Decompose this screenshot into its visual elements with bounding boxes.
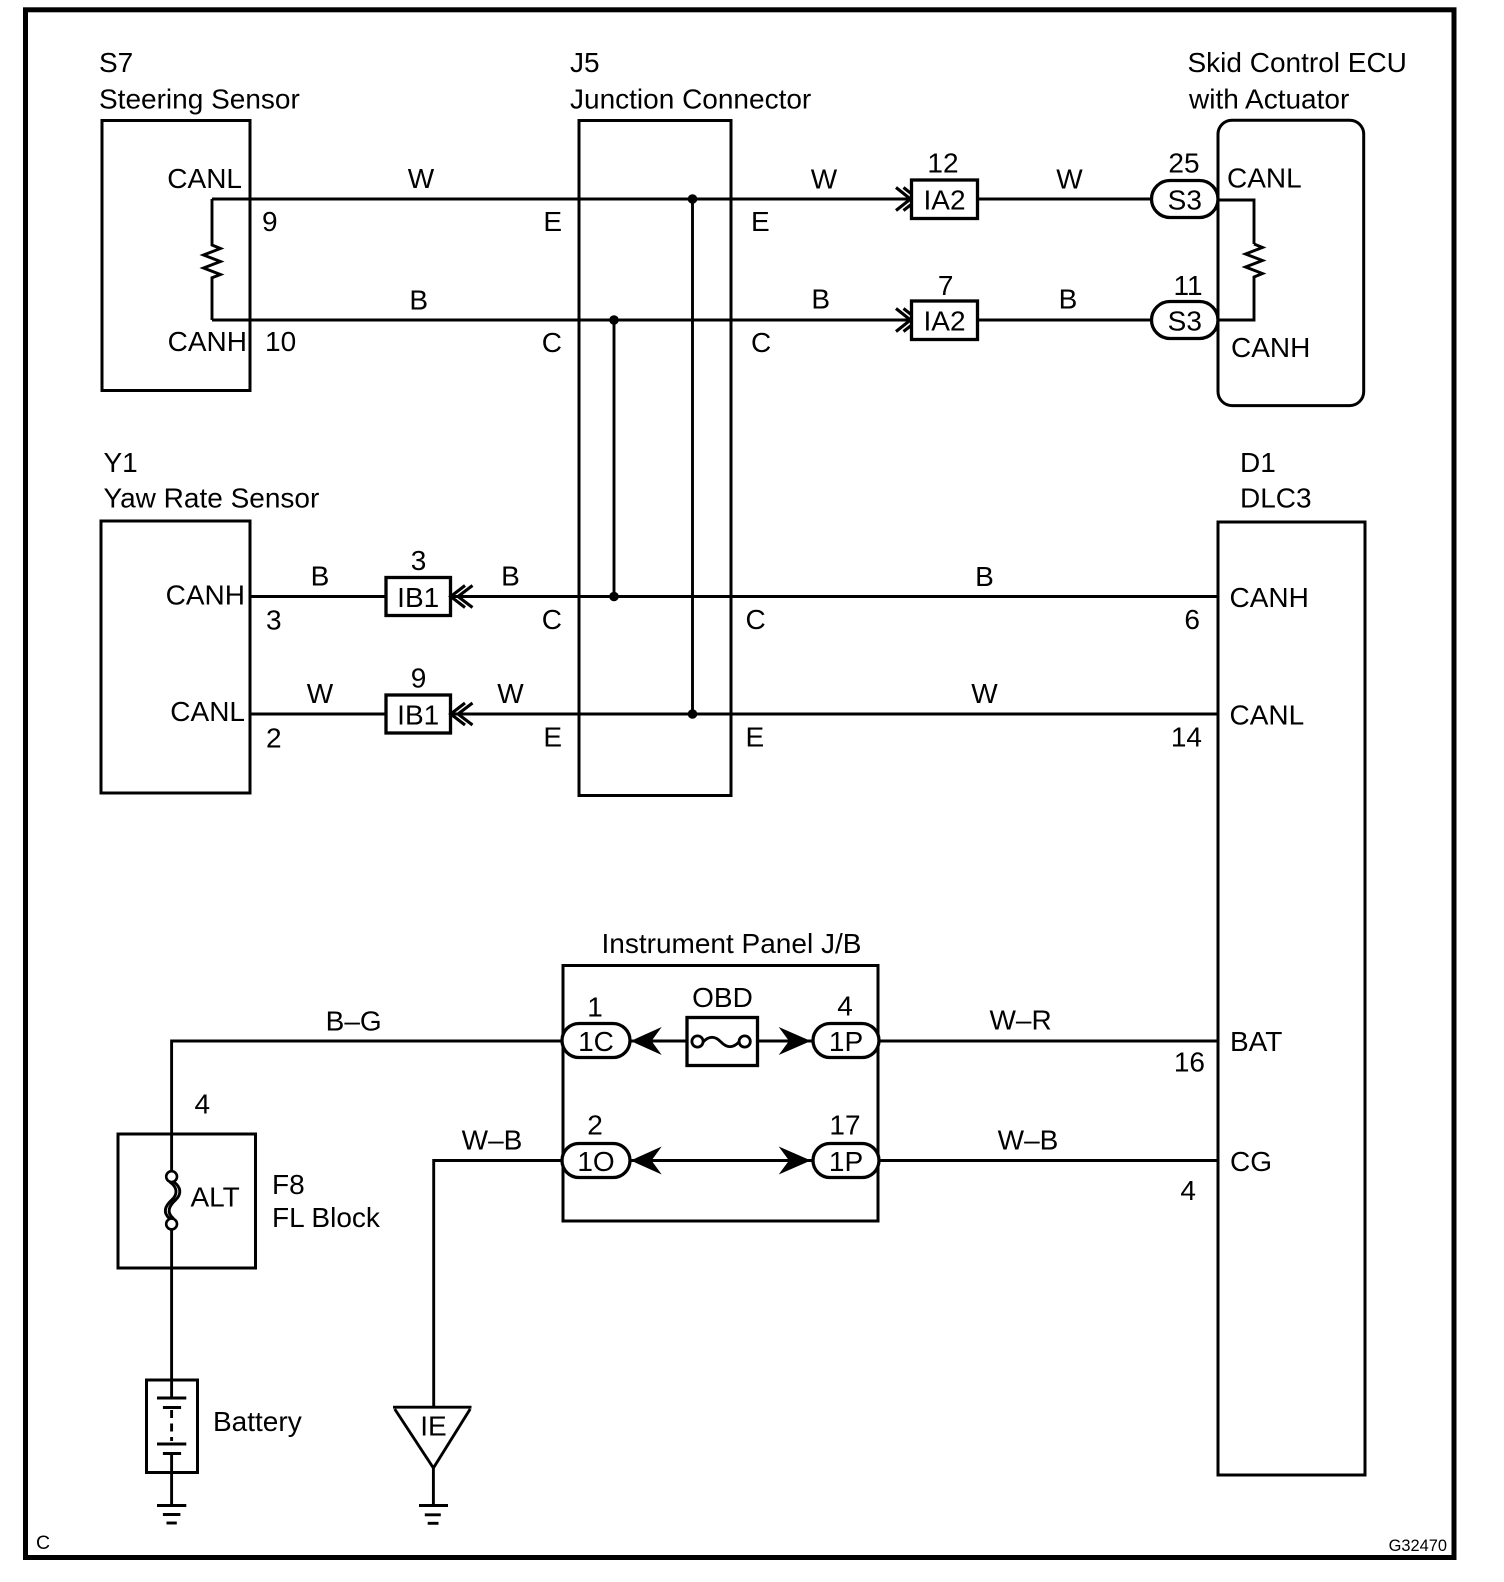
wire: B (CANH) yaw rate sensor to DLC3, row 3: [250, 595, 1218, 598]
svg-text:C: C: [751, 327, 771, 358]
connector 1P pin 17 of J/B: [813, 1110, 879, 1178]
connector 1C pin 1 of J/B: [562, 992, 630, 1058]
svg-text:4: 4: [195, 1089, 211, 1120]
svg-text:C: C: [36, 1532, 50, 1554]
wire: W (CANL) yaw rate sensor to DLC3, row 4: [250, 713, 1218, 716]
svg-text:B: B: [501, 561, 520, 592]
wire: B-G battery feed from fusible link to J/B 1C: [172, 1041, 563, 1134]
svg-text:S7: S7: [99, 47, 133, 78]
svg-text:11: 11: [1173, 270, 1202, 301]
svg-text:CANH: CANH: [166, 580, 245, 611]
svg-text:FL Block: FL Block: [272, 1202, 381, 1233]
svg-text:Instrument Panel J/B: Instrument Panel J/B: [602, 928, 862, 959]
svg-text:B: B: [311, 561, 330, 592]
svg-text:7: 7: [938, 270, 954, 301]
svg-text:E: E: [746, 722, 765, 753]
svg-text:3: 3: [266, 605, 282, 636]
svg-text:25: 25: [1168, 148, 1199, 179]
svg-text:4: 4: [837, 991, 853, 1022]
wire: B (CANH) steering sensor to skid control ECU, row 2: [212, 319, 1152, 322]
wire: J5 internal vertical C-C branch: [613, 320, 616, 597]
node: junction dot J5 E on yaw CANL wire: [688, 709, 698, 719]
ground: battery ground symbol: [157, 1506, 186, 1524]
svg-text:9: 9: [411, 663, 427, 694]
svg-text:CANL: CANL: [1230, 700, 1305, 731]
svg-text:3: 3: [411, 545, 427, 576]
connector 1P pin 4 of J/B: [813, 991, 879, 1058]
connector S7 steering sensor box: [99, 47, 300, 391]
svg-text:IB1: IB1: [397, 582, 439, 613]
wire: W-R from J/B 1P to DLC3 BAT: [878, 1040, 1218, 1043]
svg-text:S3: S3: [1168, 185, 1202, 216]
svg-text:E: E: [751, 206, 770, 237]
svg-text:W: W: [811, 164, 838, 195]
connector IA2 pin 7: [896, 270, 978, 340]
svg-text:Junction Connector: Junction Connector: [570, 84, 811, 115]
fusible link block F8 box: [118, 1134, 381, 1268]
svg-text:Yaw Rate Sensor: Yaw Rate Sensor: [104, 483, 320, 514]
svg-text:2: 2: [587, 1110, 603, 1141]
svg-text:W: W: [1056, 164, 1083, 195]
ground connector IE triangle: [393, 1407, 472, 1468]
svg-text:BAT: BAT: [1230, 1026, 1282, 1057]
svg-text:OBD: OBD: [692, 982, 753, 1013]
connector D1 DLC3 box: [1218, 447, 1365, 1475]
node: junction dot J5 C on yaw CANH wire: [609, 592, 619, 602]
svg-text:E: E: [543, 722, 562, 753]
svg-text:17: 17: [829, 1110, 860, 1141]
svg-text:IA2: IA2: [923, 185, 965, 216]
svg-text:1: 1: [587, 992, 603, 1023]
connector 1O pin 2 of J/B: [562, 1110, 630, 1178]
svg-text:C: C: [542, 604, 562, 635]
wire: F8 input lead: [170, 1134, 173, 1171]
connector IA2 pin 12: [896, 148, 978, 219]
svg-text:2: 2: [266, 723, 282, 754]
svg-text:W: W: [408, 163, 435, 194]
svg-text:G32470: G32470: [1389, 1537, 1447, 1555]
arrow: row 1 right ribbon arrow: [779, 1027, 811, 1055]
svg-text:B: B: [975, 561, 994, 592]
svg-text:ALT: ALT: [191, 1182, 240, 1213]
connector IB1 pin 3: [386, 545, 473, 616]
wire: W-B from IE ground to J/B 1O: [434, 1161, 563, 1408]
junction connector J5 box: [570, 47, 811, 796]
svg-text:IA2: IA2: [923, 306, 965, 337]
node: junction dot J5 E on W wire: [688, 194, 698, 204]
connector S3 pin 11: [1152, 270, 1219, 339]
svg-text:CANH: CANH: [1230, 582, 1309, 613]
svg-text:CANH: CANH: [1231, 332, 1310, 363]
wire: J5 internal vertical E-E branch: [691, 199, 694, 714]
svg-text:Skid Control ECU: Skid Control ECU: [1188, 47, 1407, 78]
svg-text:1P: 1P: [829, 1146, 863, 1177]
svg-text:14: 14: [1171, 722, 1202, 753]
svg-text:S3: S3: [1168, 306, 1202, 337]
resistor: skid control ECU terminating resistor: [1218, 244, 1263, 320]
svg-text:B: B: [409, 285, 428, 316]
wire: battery negative to ground: [170, 1454, 173, 1506]
svg-text:W: W: [307, 678, 334, 709]
fusible link ALT: [165, 1171, 239, 1229]
arrow: row 2 right ribbon arrow: [779, 1147, 811, 1175]
svg-text:10: 10: [265, 326, 296, 357]
svg-text:W: W: [497, 678, 524, 709]
svg-text:16: 16: [1174, 1047, 1205, 1078]
svg-text:IB1: IB1: [397, 700, 439, 731]
svg-text:B–G: B–G: [326, 1006, 382, 1037]
connector S3 pin 25: [1152, 148, 1219, 218]
connector IB1 pin 9: [386, 663, 473, 734]
arrow: row 1 left ribbon arrow: [631, 1027, 662, 1055]
battery: [147, 1380, 302, 1473]
svg-text:W: W: [971, 678, 998, 709]
wire: J/B internal row 1 (1C to 1P via OBD fuse): [630, 1040, 814, 1043]
svg-text:C: C: [542, 327, 562, 358]
node: junction dot J5 C on B wire: [609, 315, 619, 325]
svg-text:F8: F8: [272, 1169, 305, 1200]
svg-text:1C: 1C: [578, 1026, 614, 1057]
wire: W-B from J/B 1P to DLC3 CG: [878, 1159, 1218, 1162]
wire: F8 output lead down to battery positive plate: [170, 1229, 173, 1398]
svg-text:W–B: W–B: [462, 1125, 523, 1156]
svg-text:W–R: W–R: [989, 1005, 1051, 1036]
svg-text:4: 4: [1180, 1175, 1196, 1206]
svg-text:W–B: W–B: [998, 1125, 1059, 1156]
svg-text:C: C: [746, 604, 766, 635]
svg-text:9: 9: [262, 206, 278, 237]
svg-text:Battery: Battery: [213, 1406, 302, 1437]
wire: IE triangle to ground: [432, 1468, 435, 1506]
svg-text:12: 12: [927, 148, 958, 179]
svg-text:B: B: [1059, 284, 1078, 315]
svg-text:D1: D1: [1240, 447, 1276, 478]
svg-text:B: B: [811, 284, 830, 315]
svg-text:CANL: CANL: [170, 696, 245, 727]
svg-text:with Actuator: with Actuator: [1188, 84, 1349, 115]
svg-text:1O: 1O: [577, 1146, 614, 1177]
svg-text:Y1: Y1: [104, 447, 138, 478]
ECU: skid control ECU with actuator box: [1188, 47, 1407, 406]
instrument panel J/B box: [563, 928, 878, 1221]
svg-text:IE: IE: [420, 1411, 446, 1442]
svg-text:CANL: CANL: [167, 163, 242, 194]
wire: resistor jumper inside skid control ECU: [1218, 200, 1254, 244]
wire: W (CANL) steering sensor to skid control ECU, row 1: [212, 198, 1152, 201]
svg-text:DLC3: DLC3: [1240, 483, 1312, 514]
svg-text:CG: CG: [1230, 1146, 1272, 1177]
resistor: S7 internal terminating resistor: [204, 199, 221, 320]
arrow: row 2 left ribbon arrow: [631, 1147, 662, 1175]
svg-text:Steering Sensor: Steering Sensor: [99, 84, 300, 115]
svg-text:CANH: CANH: [168, 326, 247, 357]
fuse OBD: [687, 982, 758, 1066]
svg-text:J5: J5: [570, 47, 600, 78]
svg-text:1P: 1P: [829, 1026, 863, 1057]
svg-text:E: E: [543, 206, 562, 237]
svg-text:6: 6: [1184, 604, 1200, 635]
connector Y1 yaw rate sensor box: [101, 447, 319, 793]
wire: J/B internal row 2 (1O to 1P): [630, 1159, 814, 1162]
svg-text:CANL: CANL: [1227, 163, 1302, 194]
ground: IE ground symbol: [419, 1506, 448, 1524]
